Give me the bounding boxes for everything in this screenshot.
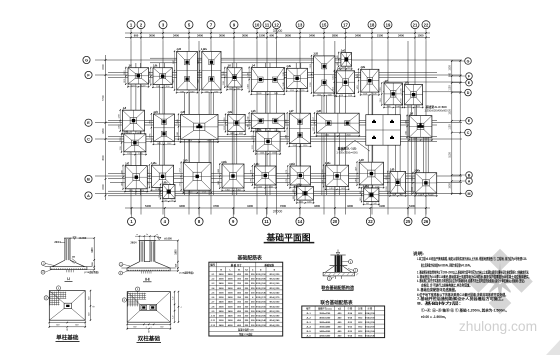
footing J-20a [415, 173, 437, 193]
svg-text:1419: 1419 [341, 188, 345, 190]
svg-text:3000: 3000 [219, 293, 225, 295]
svg-text:3000: 3000 [219, 34, 225, 38]
footing J-21s [163, 185, 175, 199]
svg-text:1407: 1407 [413, 139, 417, 141]
svg-text:1320: 1320 [322, 180, 324, 184]
svg-text:双柱基础: 双柱基础 [138, 334, 161, 342]
svg-text:2387: 2387 [173, 79, 175, 83]
svg-text:843: 843 [293, 196, 295, 199]
svg-text:1407: 1407 [355, 178, 357, 182]
svg-text:942: 942 [248, 124, 250, 127]
svg-text:1190: 1190 [205, 91, 209, 93]
svg-text:Φ12@150: Φ12@150 [365, 321, 376, 324]
svg-text:3000: 3000 [228, 293, 234, 295]
top grid bubbles axis 1-22 [127, 21, 135, 29]
svg-text:1258: 1258 [401, 99, 403, 103]
svg-text:1717: 1717 [180, 182, 182, 186]
svg-text:1717: 1717 [180, 168, 182, 172]
dim line right detail2 [177, 241, 179, 271]
svg-text:1438: 1438 [121, 170, 123, 174]
svg-text:B: B [468, 173, 471, 177]
svg-text:Φ14@150: Φ14@150 [256, 310, 267, 313]
footing J-6 [336, 71, 354, 94]
svg-text:2800: 2800 [332, 34, 338, 38]
svg-text:1500: 1500 [449, 65, 452, 71]
svg-text:1413: 1413 [333, 75, 335, 79]
tie beams horizontal double lines [150, 57, 352, 59]
svg-text:Φ12@150: Φ12@150 [256, 273, 267, 276]
svg-text:合格后, 方 可进行上部结构施工,并及时回填。: 合格后, 方 可进行上部结构施工,并及时回填。 [420, 282, 472, 287]
svg-text:J-10: J-10 [211, 316, 216, 318]
svg-text:768: 768 [170, 200, 173, 202]
right grid bubbles [465, 58, 472, 65]
bottom dimension line [125, 207, 430, 209]
svg-text:1376: 1376 [148, 170, 150, 174]
svg-text:Φ12@150: Φ12@150 [256, 287, 267, 290]
svg-text:4200x5400: 4200x5400 [319, 335, 331, 338]
svg-text:967: 967 [400, 195, 403, 197]
svg-text:1351: 1351 [380, 87, 382, 91]
svg-text:1723: 1723 [188, 192, 192, 194]
svg-text:联合基础配筋构造: 联合基础配筋构造 [321, 284, 355, 290]
svg-text:JL-5: JL-5 [306, 331, 311, 333]
svg-text:2200: 2200 [219, 297, 225, 299]
svg-text:1035: 1035 [307, 202, 311, 204]
svg-text:1723: 1723 [202, 192, 206, 194]
svg-text:20: 20 [333, 219, 338, 224]
svg-text:663: 663 [342, 68, 345, 70]
svg-text:Ⅰ-Ⅰ: Ⅰ-Ⅰ [67, 277, 70, 281]
svg-text:3400: 3400 [173, 34, 179, 38]
svg-text:2Φ14: 2Φ14 [131, 242, 138, 245]
svg-text:1500: 1500 [102, 184, 105, 190]
svg-text:1.本工程±0.00相当于黄海高程, 确定以现场实测为准以上: 1.本工程±0.00相当于黄海高程, 确定以现场实测为准以上为准, 根据地质报告… [417, 256, 527, 261]
svg-text:2400: 2400 [228, 301, 234, 304]
svg-text:A: A [468, 179, 471, 183]
svg-text:1600: 1600 [176, 249, 178, 255]
svg-text:E: E [87, 120, 90, 125]
svg-text:1100: 1100 [449, 124, 452, 130]
detail section 2-2 double column footing [119, 234, 194, 282]
footing J-18 [317, 113, 360, 133]
svg-text:1246: 1246 [283, 72, 285, 76]
svg-text:1190: 1190 [214, 91, 218, 93]
svg-text:1370: 1370 [138, 153, 142, 155]
footing J-7 [384, 83, 402, 105]
svg-text:zhulong.com: zhulong.com [459, 319, 537, 334]
svg-text:3600x4400: 3600x4400 [319, 326, 331, 329]
svg-text:1500: 1500 [418, 34, 424, 38]
footing J-2a [153, 68, 172, 85]
svg-text:861: 861 [159, 194, 161, 197]
footing J-4a [287, 68, 308, 88]
svg-text:1351: 1351 [380, 98, 382, 102]
footing J-17 [289, 113, 310, 143]
svg-text:Φ14@150: Φ14@150 [365, 317, 376, 320]
svg-text:C: C [87, 137, 90, 142]
svg-text:12: 12 [274, 22, 279, 27]
svg-text:13: 13 [298, 22, 303, 27]
svg-text:1543: 1543 [177, 119, 179, 123]
svg-text:2039: 2039 [257, 93, 261, 95]
svg-text:1364: 1364 [236, 189, 240, 191]
svg-text:G: G [85, 58, 88, 63]
svg-text:14: 14 [298, 219, 303, 224]
svg-text:3400x4200: 3400x4200 [319, 330, 331, 333]
svg-text:930: 930 [229, 88, 232, 90]
footing J-12 [177, 51, 198, 90]
svg-text:Φ12@180: Φ12@180 [256, 315, 267, 318]
svg-text:1333: 1333 [258, 186, 262, 188]
svg-text:2400: 2400 [219, 324, 225, 327]
footing J-10a [256, 132, 280, 152]
footing J-11f [359, 162, 383, 185]
table 基础配筋表 [209, 254, 283, 336]
svg-text:基础配筋: 基础配筋 [263, 263, 274, 267]
svg-text:3000: 3000 [242, 34, 248, 38]
svg-text:1289: 1289 [119, 125, 121, 129]
svg-text:基础梁JL-6=600: 基础梁JL-6=600 [424, 104, 447, 109]
svg-text:2100: 2100 [377, 34, 383, 38]
footing J-8a [228, 114, 246, 131]
svg-text:22: 22 [424, 22, 429, 27]
footing J-3 [227, 68, 242, 87]
svg-text:1178: 1178 [251, 179, 253, 183]
svg-text:4400: 4400 [247, 204, 253, 208]
svg-text:1047: 1047 [149, 79, 151, 83]
svg-text:±0.000: ±0.000 [164, 237, 172, 240]
svg-text:2400: 2400 [228, 315, 234, 318]
svg-text:843: 843 [337, 55, 339, 58]
svg-text:3000: 3000 [219, 320, 225, 322]
svg-text:Φ14@170: Φ14@170 [269, 296, 280, 299]
svg-text:2300: 2300 [310, 64, 312, 68]
svg-text:1221: 1221 [252, 145, 254, 149]
svg-text:Φ14@140: Φ14@140 [365, 335, 376, 338]
footing J-6a [361, 69, 379, 92]
svg-text:1506: 1506 [260, 153, 264, 155]
svg-text:2600: 2600 [228, 297, 234, 299]
svg-text:1140: 1140 [396, 106, 400, 108]
svg-text:1100: 1100 [449, 85, 452, 91]
svg-text:17: 17 [343, 22, 348, 27]
dim line right detail1 [93, 238, 95, 270]
svg-text:663: 663 [347, 68, 350, 70]
svg-text:2387: 2387 [173, 60, 175, 64]
svg-text:1227: 1227 [313, 117, 315, 121]
svg-text:768: 768 [164, 200, 167, 202]
rebar leader circles detail2 [119, 262, 123, 266]
svg-text:Φ12@170: Φ12@170 [256, 296, 267, 299]
horizontal grid lines rows A-G [95, 59, 462, 61]
svg-text:1345: 1345 [405, 120, 407, 124]
svg-text:2800: 2800 [219, 274, 225, 276]
svg-text:±0.00 = -1.900m。: ±0.00 = -1.900m。 [421, 315, 448, 319]
svg-text:基础梁JL-1(2): 基础梁JL-1(2) [337, 146, 357, 151]
svg-text:5100: 5100 [449, 152, 452, 158]
svg-text:±0.000: ±0.000 [79, 237, 87, 240]
svg-text:10: 10 [255, 22, 260, 27]
svg-text:900: 900 [134, 34, 139, 38]
svg-text:Φ12@160: Φ12@160 [256, 282, 267, 285]
svg-text:37000: 37000 [273, 29, 283, 33]
svg-text:1320: 1320 [322, 169, 324, 173]
footing J-15 [181, 114, 218, 139]
svg-text:3400: 3400 [309, 34, 315, 38]
svg-text:1196: 1196 [223, 81, 225, 85]
svg-text:联合基础配筋表: 联合基础配筋表 [320, 299, 353, 306]
svg-text:①: ① [260, 268, 262, 271]
svg-text:1178: 1178 [286, 179, 288, 183]
detail section 1-1 single column footing [41, 237, 99, 282]
svg-text:861: 861 [159, 188, 161, 191]
svg-text:1376: 1376 [148, 181, 150, 185]
svg-text:4200: 4200 [347, 204, 353, 208]
svg-text:3000: 3000 [149, 34, 155, 38]
svg-text:1035: 1035 [299, 202, 303, 204]
footing J-11a [152, 165, 174, 187]
svg-text:说明:: 说明: [413, 251, 424, 256]
svg-text:JL-6: JL-6 [306, 336, 311, 338]
svg-text:Φ12@180: Φ12@180 [256, 278, 267, 281]
svg-text:37000: 37000 [273, 210, 283, 214]
footing J-7a [405, 85, 423, 105]
svg-text:B: B [87, 177, 90, 182]
left grid bubbles G F E C B A [83, 56, 90, 63]
svg-text:①~④: Ⓐ~Ⓓ 轴Ⓑ Ⓖ ① 基础-1.200m, 其: ①~④: Ⓐ~Ⓓ 轴Ⓑ Ⓖ ① 基础-1.200m, 其余为-1.500m。 [421, 307, 509, 312]
leader line to combined footing [355, 140, 370, 151]
footing J-8 [122, 110, 144, 131]
svg-text:C: C [467, 131, 470, 135]
svg-text:1884: 1884 [286, 120, 288, 124]
footing J-11 [125, 166, 147, 189]
svg-text:1314: 1314 [303, 145, 307, 147]
level mark detail1 [73, 237, 76, 239]
svg-text:JL-3: JL-3 [306, 322, 311, 324]
svg-text:2000: 2000 [219, 316, 225, 318]
svg-text:1(350x600)400x600: 1(350x600)400x600 [424, 109, 448, 113]
svg-text:1295: 1295 [300, 90, 304, 92]
notes 说明 text block [413, 251, 531, 319]
right partial grid rows [383, 81, 462, 83]
rebar leader circles detail1 [41, 262, 45, 266]
svg-text:1705: 1705 [150, 120, 152, 124]
svg-text:18: 18 [370, 22, 375, 27]
svg-text:编号: 编号 [210, 263, 215, 267]
vertical grid lines [130, 41, 132, 215]
top dimension ticks [130, 32, 132, 34]
svg-text:3200: 3200 [228, 306, 234, 308]
svg-text:2000: 2000 [219, 279, 225, 281]
svg-text:1506: 1506 [272, 153, 276, 155]
svg-text:1128: 1128 [363, 94, 367, 96]
svg-text:Ⅱ-Ⅱ: Ⅱ-Ⅱ [145, 278, 150, 282]
svg-text:7200: 7200 [280, 204, 286, 208]
detail 联合基础配筋构造 [321, 250, 358, 291]
svg-text:Φ14@140: Φ14@140 [256, 319, 267, 322]
svg-text:1800: 1800 [102, 128, 105, 134]
svg-text:1339: 1339 [386, 187, 388, 191]
svg-text:1178: 1178 [251, 170, 253, 174]
svg-text:1295: 1295 [290, 90, 294, 92]
svg-text:6.位于地下室底板以下的基坑采用C15素砼回填,浇筑前将基底: 6.位于地下室底板以下的基坑采用C15素砼回填,浇筑前将基底夯实处理。 [417, 292, 508, 297]
svg-text:1339: 1339 [429, 195, 433, 197]
svg-text:1196: 1196 [156, 86, 160, 88]
svg-text:7.基础开挖后通知勘察设计人员验槽后方可施工。: 7.基础开挖后通知勘察设计人员验槽后方可施工。 [417, 296, 506, 301]
svg-text:26: 26 [424, 219, 429, 224]
svg-text:1128: 1128 [372, 94, 376, 96]
svg-text:2387: 2387 [198, 79, 200, 83]
footing J-11c [255, 166, 277, 185]
svg-text:1500: 1500 [449, 109, 452, 115]
svg-text:4500: 4500 [102, 155, 105, 161]
svg-text:3000: 3000 [228, 283, 234, 285]
svg-text:1283: 1283 [180, 91, 184, 93]
svg-text:11: 11 [265, 22, 270, 27]
svg-text:1370: 1370 [129, 190, 133, 192]
svg-text:4100: 4100 [379, 204, 385, 208]
svg-text:2300: 2300 [310, 83, 312, 87]
svg-text:JL-4: JL-4 [306, 326, 311, 329]
left dimension line [105, 55, 107, 200]
footing J-s1 [341, 53, 352, 67]
svg-text:3500x4700: 3500x4700 [319, 312, 331, 315]
footing J-11b [222, 164, 244, 188]
svg-text:1302: 1302 [157, 143, 161, 145]
svg-text:1264: 1264 [411, 177, 413, 181]
svg-text:2039: 2039 [274, 93, 278, 95]
svg-text:3000: 3000 [285, 34, 291, 38]
svg-text:2000: 2000 [228, 279, 234, 281]
svg-text:1116: 1116 [120, 146, 122, 150]
svg-text:4000x5200: 4000x5200 [319, 317, 331, 320]
svg-text:5400: 5400 [409, 204, 415, 208]
svg-text:3400: 3400 [398, 34, 404, 38]
tie beams vertical double lines [135, 63, 137, 195]
svg-text:1128: 1128 [348, 95, 352, 97]
svg-text:1196: 1196 [165, 86, 169, 88]
footing J-11d [290, 166, 311, 185]
svg-text:2641: 2641 [325, 134, 329, 136]
svg-text:G: G [467, 59, 470, 63]
svg-text:4000: 4000 [228, 324, 234, 327]
svg-text:1122: 1122 [416, 106, 420, 108]
svg-text:1705: 1705 [150, 133, 152, 137]
footing J-11e [326, 165, 349, 186]
svg-text:Φ14@150: Φ14@150 [269, 324, 280, 327]
svg-text:Φ12@140: Φ12@140 [269, 292, 280, 295]
bottom grid bubbles [128, 218, 136, 226]
svg-text:1413: 1413 [357, 74, 359, 78]
svg-text:2800: 2800 [219, 311, 225, 313]
svg-text:1370: 1370 [127, 153, 131, 155]
footing J-2 [128, 68, 149, 84]
svg-text:Φ12@180: Φ12@180 [269, 315, 280, 318]
svg-text:1-350x750(h=600): 1-350x750(h=600) [336, 150, 357, 154]
top dimension lines [125, 32, 430, 34]
svg-text:Φ12@160: Φ12@160 [365, 326, 376, 329]
svg-text:JL-2: JL-2 [306, 318, 311, 320]
svg-text:942: 942 [374, 203, 377, 205]
svg-text:900: 900 [269, 34, 274, 38]
svg-text:930: 930 [237, 88, 240, 90]
svg-text:1500: 1500 [102, 64, 105, 70]
svg-text:1221: 1221 [252, 135, 254, 139]
svg-text:1047: 1047 [149, 71, 151, 75]
svg-text:1283: 1283 [190, 91, 194, 93]
svg-text:Φ12@150: Φ12@150 [256, 305, 267, 308]
svg-text:J-12: J-12 [211, 325, 216, 327]
svg-text:2600: 2600 [219, 306, 225, 308]
svg-text:1060: 1060 [224, 126, 226, 130]
detail plan 双柱基础 [122, 287, 183, 342]
svg-text:3400: 3400 [355, 34, 361, 38]
svg-text:25: 25 [406, 219, 411, 224]
svg-text:基础配筋表: 基础配筋表 [236, 254, 262, 261]
svg-text:4300: 4300 [179, 204, 185, 208]
svg-text:1345: 1345 [405, 131, 407, 135]
footing body detail2 [127, 262, 140, 268]
svg-text:Φ14@150: Φ14@150 [365, 312, 376, 315]
svg-text:2641: 2641 [346, 134, 350, 136]
svg-text:19: 19 [386, 22, 391, 27]
svg-text:2387: 2387 [198, 60, 200, 64]
svg-text:4300: 4300 [314, 204, 320, 208]
svg-text:1196: 1196 [223, 71, 225, 75]
svg-text:A: A [87, 193, 90, 198]
detail plan 单柱基础 [44, 286, 95, 342]
top dim ticks detail2 [135, 235, 159, 237]
svg-text:11: 11 [264, 219, 269, 224]
svg-text:1884: 1884 [286, 135, 288, 139]
svg-text:3400: 3400 [228, 310, 234, 313]
svg-text:1339: 1339 [386, 176, 388, 180]
svg-text:1122: 1122 [407, 106, 411, 108]
footing J-13 [314, 56, 335, 93]
svg-text:1010: 1010 [124, 71, 126, 75]
svg-text:1320: 1320 [327, 94, 331, 96]
svg-text:2400: 2400 [219, 282, 225, 285]
svg-text:1140: 1140 [387, 106, 391, 108]
svg-text:M: M [468, 192, 471, 196]
svg-text:1488: 1488 [218, 169, 220, 173]
svg-text:1277: 1277 [141, 85, 145, 87]
svg-text:1116: 1116 [120, 137, 122, 141]
svg-text:2318: 2318 [188, 141, 192, 143]
svg-text:Φ12@150: Φ12@150 [269, 310, 280, 313]
svg-text:Φ14@150: Φ14@150 [269, 305, 280, 308]
footing J-21t [297, 187, 314, 201]
svg-text:2400: 2400 [219, 301, 225, 304]
svg-text:1277: 1277 [131, 85, 135, 87]
svg-text:基础平面图: 基础平面图 [266, 231, 311, 242]
svg-text:Φ12@160: Φ12@160 [256, 301, 267, 304]
svg-text:1227: 1227 [313, 127, 315, 131]
footing J-10 [124, 134, 146, 152]
svg-text:967: 967 [392, 195, 395, 197]
svg-text:843: 843 [360, 191, 362, 194]
svg-text:②: ② [273, 268, 275, 271]
svg-text:1543: 1543 [177, 132, 179, 136]
svg-text:1600: 1600 [92, 247, 94, 253]
svg-text:基 础 尺寸: 基 础 尺寸 [230, 263, 243, 267]
footing J-20 [390, 172, 406, 194]
svg-text:Φ12@160: Φ12@160 [269, 282, 280, 285]
svg-text:1289: 1289 [119, 114, 121, 118]
svg-text:4700: 4700 [213, 204, 219, 208]
svg-text:粘土层承载力标准值fka=260kPa, 承载力修正值fa=: 粘土层承载力标准值fka=260kPa, 承载力修正值fa=0.16kPa。 [420, 263, 472, 268]
svg-text:1413: 1413 [333, 87, 335, 91]
